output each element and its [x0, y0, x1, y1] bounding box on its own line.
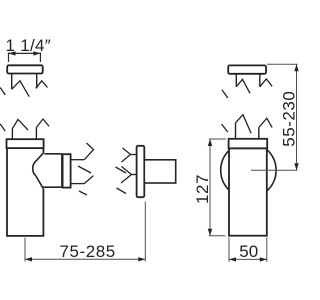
nut leg right	[259, 74, 261, 87]
break marks below nut	[0, 81, 47, 97]
extension bottom	[209, 235, 226, 237]
flange tube	[144, 160, 175, 183]
dimension line	[296, 64, 298, 170]
break marks left of flange	[116, 148, 137, 194]
extension top	[267, 63, 298, 65]
tail pipe leg right	[35, 127, 37, 139]
nut body	[228, 65, 266, 73]
arrow right	[138, 257, 145, 261]
dimension line	[25, 258, 145, 260]
outlet stub top	[71, 159, 85, 161]
arrow up	[208, 139, 212, 146]
svg-text:50: 50	[239, 242, 258, 261]
arrow right	[260, 257, 267, 261]
tail pipe leg left	[11, 129, 13, 140]
nut body	[7, 65, 43, 73]
arrow down	[208, 229, 212, 236]
tube right edge upper	[42, 148, 44, 153]
arrow up	[294, 64, 298, 71]
outlet stub bottom	[71, 183, 85, 185]
arrow down	[294, 163, 298, 170]
extension line right	[144, 202, 146, 262]
arrow left	[25, 257, 32, 261]
break marks above cap	[222, 115, 273, 134]
extension left	[228, 238, 230, 262]
tube body	[229, 148, 267, 235]
outlet cylinder	[43, 154, 62, 187]
dimension line	[229, 258, 267, 260]
cap nut	[229, 139, 268, 149]
arrow left	[229, 257, 236, 261]
outlet cylinder end line	[61, 154, 63, 187]
tube body	[7, 148, 43, 236]
extension line left	[24, 238, 26, 262]
break marks above cap	[0, 119, 49, 131]
nut leg right	[36, 74, 38, 89]
outlet dome	[33, 153, 44, 189]
trap bowl circle	[221, 143, 276, 198]
cap nut	[7, 139, 44, 148]
break marks right of stub	[78, 143, 94, 195]
dimension line	[209, 139, 211, 236]
dimension line 1 1/4	[9, 53, 41, 63]
arrow left	[9, 51, 16, 55]
flange plate	[137, 146, 145, 197]
tail pipe leg right	[258, 128, 260, 140]
arrow right	[33, 51, 40, 55]
svg-text:55-230: 55-230	[280, 91, 299, 147]
extension top	[209, 138, 226, 140]
svg-text:75-285: 75-285	[60, 242, 116, 261]
nut leg left	[11, 74, 13, 90]
leader line from bowl center	[251, 169, 298, 171]
tail pipe leg left	[235, 123, 237, 140]
break marks below nut	[222, 79, 272, 98]
svg-text:127: 127	[193, 174, 212, 204]
outlet nut	[63, 154, 71, 187]
extension right	[266, 238, 268, 262]
nut leg left	[235, 74, 237, 87]
